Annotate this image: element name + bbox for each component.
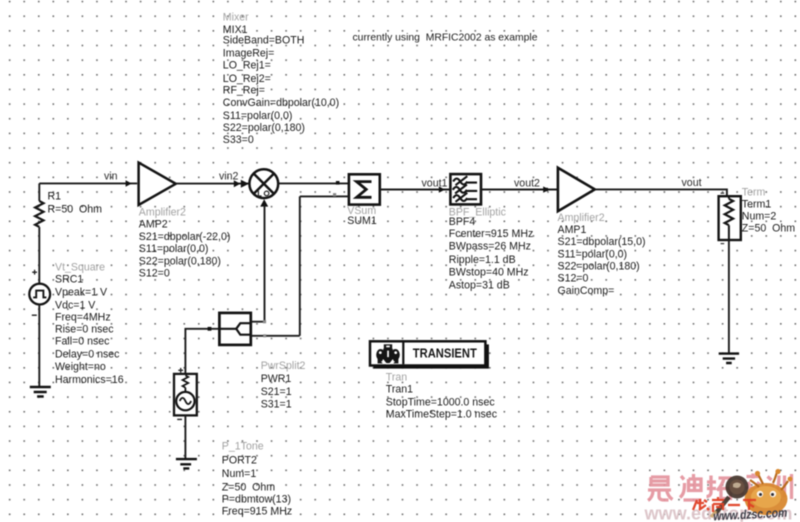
svg-text:S22=polar(0,180): S22=polar(0,180) <box>558 261 640 273</box>
ground below Term1 <box>719 354 739 363</box>
node junction at AMP1 input <box>545 188 548 191</box>
resistor R1 <box>35 201 43 227</box>
ground below PORT2 <box>176 459 197 468</box>
power splitter PWR1 symbol <box>219 313 250 345</box>
node vertex on splitter output1 <box>263 320 266 323</box>
svg-text:S31=1: S31=1 <box>261 399 292 411</box>
summer SUM1 symbol <box>349 174 380 204</box>
node junction on splitter input <box>208 327 212 331</box>
ground below SRC1 <box>30 387 51 397</box>
wire AMP1 output to Term1 net vout <box>595 189 727 196</box>
svg-text:Vpeak=1 V: Vpeak=1 V <box>55 287 108 299</box>
mixer MIX1 symbol <box>249 169 278 198</box>
svg-text:P=dbmtow(13): P=dbmtow(13) <box>222 494 291 506</box>
svg-text:S21=dbpolar(-22,0): S21=dbpolar(-22,0) <box>139 231 231 243</box>
wire Term1 to ground <box>728 240 730 354</box>
svg-text:Freq=4MHz: Freq=4MHz <box>55 311 111 323</box>
node vin2 <box>219 171 239 183</box>
svg-text:Delay=0 nsec: Delay=0 nsec <box>55 349 120 361</box>
svg-text:ConvGain=dbpolar(10,0): ConvGain=dbpolar(10,0) <box>223 97 339 109</box>
port P_1Tone PORT2 plus mark <box>178 368 183 373</box>
svg-text:Term: Term <box>742 187 766 199</box>
svg-text:Vdc=1 V: Vdc=1 V <box>55 299 96 311</box>
svg-text:Tran: Tran <box>386 371 407 383</box>
svg-text:S22=polar(0,180): S22=polar(0,180) <box>223 122 305 134</box>
svg-text:S22=polar(0,180): S22=polar(0,180) <box>139 255 221 267</box>
Tran Tran1 parameter text <box>386 371 498 420</box>
wire SRC1 to ground <box>38 305 40 387</box>
svg-text:R=50 Ohm: R=50 Ohm <box>48 203 103 215</box>
svg-text:PWR1: PWR1 <box>261 373 292 385</box>
svg-text:LO_Rej1=: LO_Rej1= <box>223 60 271 72</box>
PwrSplit2 PWR1 parameter text <box>261 360 306 410</box>
port P_1Tone PORT2 symbol <box>174 374 197 416</box>
TRANSIENT icon <box>376 344 400 365</box>
svg-text:RF_Rej=: RF_Rej= <box>223 85 265 97</box>
svg-text:Fcenter=915 MHz: Fcenter=915 MHz <box>449 228 534 240</box>
svg-text:S12=0: S12=0 <box>139 268 170 280</box>
svg-text:ImageRej=: ImageRej= <box>223 47 275 59</box>
svg-text:PORT2: PORT2 <box>222 455 257 467</box>
Mixer MIX1 parameter text <box>223 12 339 146</box>
wire mixer output to SUM1 <box>278 182 349 184</box>
svg-text:MaxTimeStep=1.0 nsec: MaxTimeStep=1.0 nsec <box>386 408 498 420</box>
svg-text:Weight=no: Weight=no <box>55 361 106 373</box>
BPF_Elliptic BPF4 parameter text <box>449 206 534 291</box>
VSum SUM1 label text <box>347 205 377 227</box>
amplifier AMP2 symbol <box>139 163 176 205</box>
node vout2 <box>514 177 540 189</box>
svg-text:SideBand=BOTH: SideBand=BOTH <box>223 35 305 47</box>
svg-text:P_1Tone: P_1Tone <box>222 441 264 453</box>
svg-text:TRANSIENT: TRANSIENT <box>413 346 477 360</box>
source SRC1 minus mark <box>32 314 37 316</box>
wire R1 to SRC1 <box>38 227 40 284</box>
node vout <box>682 177 702 189</box>
svg-text:Astop=31 dB: Astop=31 dB <box>449 280 510 292</box>
watermark pink CJK brand text <box>648 474 792 501</box>
svg-text:Rise=0 nsec: Rise=0 nsec <box>55 324 114 336</box>
svg-text:S33=0: S33=0 <box>223 134 254 146</box>
wire PORT2 to ground <box>184 415 186 459</box>
band-pass filter BPF4 symbol <box>450 174 481 204</box>
wire PORT2 riser to splitter input <box>185 329 219 374</box>
wire splitter output1 to mixer LO <box>251 206 265 322</box>
wire main input net vin <box>39 182 137 184</box>
svg-text:S11=polar(0,0): S11=polar(0,0) <box>558 248 628 260</box>
svg-text:Amplifier2: Amplifier2 <box>558 212 605 224</box>
svg-text:Ripple=1.1 dB: Ripple=1.1 dB <box>449 254 516 266</box>
wire AMP2 output to mixer net vin2 <box>176 183 250 185</box>
svg-text:Num=2: Num=2 <box>742 211 777 223</box>
svg-text:Num=1: Num=1 <box>222 468 257 480</box>
R1 value label <box>48 191 103 216</box>
svg-text:GainComp=: GainComp= <box>558 285 615 297</box>
Vt_Square SRC1 parameter text <box>55 261 124 386</box>
wire SUM1 output to BPF net vout1 <box>380 189 451 191</box>
svg-text:vin2: vin2 <box>219 171 239 183</box>
Term Term1 parameter text <box>742 187 795 235</box>
svg-text:S21=1: S21=1 <box>261 386 292 398</box>
wire splitter output2 to SUM1 input2 <box>251 196 337 335</box>
svg-text:Fall=0 nsec: Fall=0 nsec <box>55 336 110 348</box>
mixer LO input arrow <box>260 199 268 206</box>
svg-text:vin: vin <box>104 171 118 183</box>
svg-text:AMP1: AMP1 <box>558 224 587 236</box>
P_1Tone PORT2 parameter text <box>222 441 292 518</box>
svg-text:Term1: Term1 <box>742 199 772 211</box>
svg-text:AMP2: AMP2 <box>139 219 168 231</box>
svg-text:Mixer: Mixer <box>223 12 249 24</box>
Amplifier2 AMP1 parameter text <box>558 212 646 297</box>
node junction at SUM1 input 1 <box>336 181 340 185</box>
svg-text:SRC1: SRC1 <box>55 273 83 285</box>
Term1 plus mark <box>721 192 725 194</box>
svg-text:S11=polar(0,0): S11=polar(0,0) <box>139 243 209 255</box>
wire SUM1 input 2 stub <box>337 195 349 197</box>
node vout1 label arrow <box>439 186 445 192</box>
node vin label arrow <box>126 180 132 186</box>
svg-text:SUM1: SUM1 <box>347 215 377 227</box>
TRANSIENT controller block <box>370 341 485 365</box>
svg-text:currently using MRFIC2002 as: currently using MRFIC2002 as example <box>353 32 538 44</box>
Amplifier2 AMP2 parameter text <box>139 207 231 280</box>
wire left vertical to R1/SRC1 <box>38 183 40 201</box>
svg-text:Freq=915 MHz: Freq=915 MHz <box>222 506 292 518</box>
source SRC1 square-wave symbol <box>29 284 50 305</box>
node vertex on splitter output2 <box>263 334 266 337</box>
annotation note text <box>353 32 538 44</box>
amplifier AMP1 symbol <box>558 168 595 212</box>
node vertex at SUM1 input2 <box>333 193 336 196</box>
svg-text:PwrSplit2: PwrSplit2 <box>261 360 306 372</box>
svg-text:Harmonics=16: Harmonics=16 <box>55 374 124 386</box>
watermark red CJK tagline text <box>693 497 756 512</box>
TRANSIENT controller block shadow <box>374 344 489 368</box>
svg-text:Amplifier2: Amplifier2 <box>139 207 186 219</box>
svg-text:R1: R1 <box>48 191 62 203</box>
node vin2 label arrow <box>234 180 241 187</box>
Term1 minus mark <box>721 243 725 245</box>
svg-text:S11=polar(0,0): S11=polar(0,0) <box>223 110 293 122</box>
source SRC1 plus mark <box>32 270 37 275</box>
svg-text:vout2: vout2 <box>514 177 540 189</box>
svg-text:BWstop=40 MHz: BWstop=40 MHz <box>449 267 529 279</box>
svg-text:BPF4: BPF4 <box>449 216 476 228</box>
svg-text:Vt_Square: Vt_Square <box>55 261 105 273</box>
node vin <box>104 171 118 183</box>
svg-text:vout1: vout1 <box>422 177 448 189</box>
svg-text:vout: vout <box>682 177 702 189</box>
watermark pale pink www.edatop.com text <box>644 503 793 522</box>
wire BPF to AMP1 net vout2 <box>481 189 558 191</box>
node vout2 label arrow <box>543 186 549 192</box>
node vout1 <box>422 177 448 189</box>
mixer MIX1 input arrow <box>241 180 249 188</box>
watermark mascot beetle body <box>745 469 793 515</box>
watermark mascot head with magnifier <box>711 476 749 518</box>
svg-text:LO_Rej2=: LO_Rej2= <box>223 73 271 85</box>
watermark www.dzsc.com text <box>713 506 788 522</box>
svg-text:BWpass=26 MHz: BWpass=26 MHz <box>449 241 531 253</box>
svg-text:S12=0: S12=0 <box>558 273 589 285</box>
svg-text:Z=50 Ohm: Z=50 Ohm <box>222 482 275 494</box>
svg-text:S21=dbpolar(15,0): S21=dbpolar(15,0) <box>558 236 646 248</box>
svg-text:Tran1: Tran1 <box>386 384 413 396</box>
port PORT2 minus mark <box>177 418 182 420</box>
svg-text:StopTime=1000.0 nsec: StopTime=1000.0 nsec <box>386 396 496 408</box>
terminator Term1 symbol <box>719 196 741 240</box>
svg-text:www.dzsc.com: www.dzsc.com <box>713 506 788 522</box>
svg-text:Z=50 Ohm: Z=50 Ohm <box>742 223 795 235</box>
